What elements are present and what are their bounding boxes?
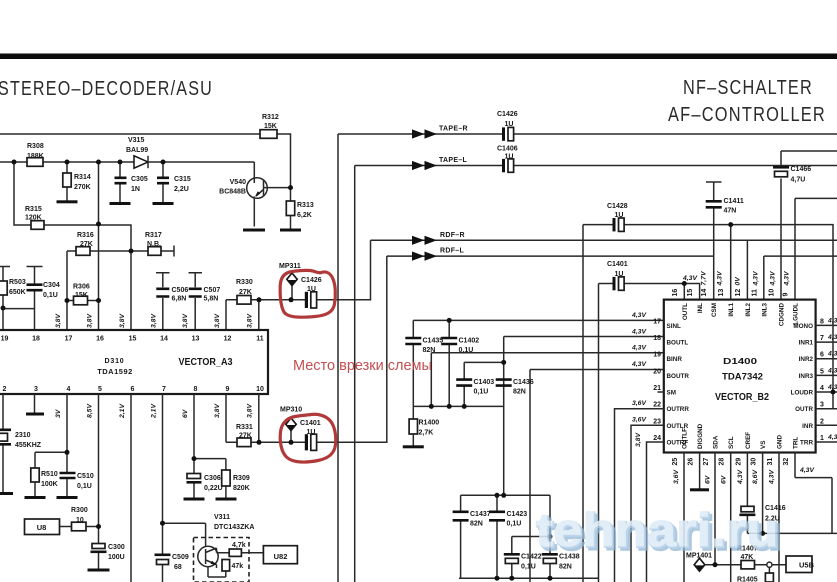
- svg-text:R312: R312: [262, 114, 279, 121]
- svg-text:3,8V: 3,8V: [86, 313, 93, 328]
- svg-text:19: 19: [653, 352, 661, 359]
- svg-text:OUTRR: OUTRR: [667, 406, 690, 413]
- svg-text:V540: V540: [230, 179, 246, 186]
- svg-text:12: 12: [224, 336, 232, 343]
- svg-text:3: 3: [34, 386, 38, 393]
- svg-text:1U: 1U: [307, 429, 316, 436]
- svg-text:120K: 120K: [25, 214, 42, 221]
- svg-text:INL3: INL3: [761, 303, 768, 317]
- svg-text:R330: R330: [236, 279, 253, 286]
- svg-text:2,1V: 2,1V: [119, 403, 126, 419]
- svg-text:9: 9: [783, 293, 790, 297]
- svg-text:18: 18: [32, 336, 40, 343]
- svg-text:R308: R308: [27, 143, 44, 150]
- svg-text:3,8V: 3,8V: [214, 313, 221, 328]
- svg-text:1N: 1N: [131, 186, 140, 193]
- svg-text:14: 14: [160, 336, 168, 343]
- svg-text:SM: SM: [667, 390, 676, 397]
- svg-text:16: 16: [96, 336, 104, 343]
- svg-text:455KHZ: 455KHZ: [15, 442, 42, 449]
- svg-text:C1466: C1466: [791, 166, 812, 173]
- svg-text:SDA: SDA: [713, 435, 720, 449]
- svg-text:15K: 15K: [264, 123, 277, 130]
- svg-text:2: 2: [3, 386, 7, 393]
- svg-text:C1401: C1401: [607, 261, 628, 268]
- svg-text:TDA7342: TDA7342: [722, 372, 763, 382]
- svg-text:4,3V: 4,3V: [784, 270, 791, 286]
- svg-text:26: 26: [688, 458, 695, 466]
- svg-text:28: 28: [719, 458, 726, 466]
- svg-text:C509: C509: [172, 554, 189, 561]
- svg-text:4,3V: 4,3V: [717, 270, 724, 286]
- svg-text:270K: 270K: [74, 184, 91, 191]
- svg-text:D310: D310: [105, 358, 125, 365]
- svg-text:3,6V: 3,6V: [673, 469, 680, 484]
- svg-text:17: 17: [653, 318, 661, 325]
- svg-text:3,8V: 3,8V: [635, 432, 642, 447]
- svg-text:R314: R314: [74, 174, 91, 181]
- svg-text:INR: INR: [802, 423, 813, 430]
- svg-text:27K: 27K: [239, 433, 252, 440]
- svg-text:4,3V: 4,3V: [631, 361, 647, 368]
- svg-text:16: 16: [672, 289, 679, 297]
- svg-text:32: 32: [783, 458, 790, 466]
- svg-text:4,3V: 4,3V: [737, 469, 744, 485]
- svg-text:4,3V: 4,3V: [827, 317, 837, 324]
- svg-text:R510: R510: [41, 471, 58, 478]
- svg-text:C1411: C1411: [724, 198, 744, 205]
- svg-text:0,1U: 0,1U: [43, 292, 58, 299]
- svg-text:R309: R309: [233, 475, 250, 482]
- svg-text:7,7V: 7,7V: [701, 270, 708, 285]
- svg-text:8,5V: 8,5V: [86, 403, 93, 418]
- svg-text:4,3V: 4,3V: [631, 345, 647, 352]
- svg-text:C506: C506: [172, 287, 189, 294]
- svg-text:3,8V: 3,8V: [246, 313, 253, 328]
- svg-text:TDA1592: TDA1592: [97, 367, 133, 376]
- svg-text:0,1U: 0,1U: [474, 389, 489, 396]
- svg-text:R1405: R1405: [737, 577, 758, 582]
- svg-text:82N: 82N: [559, 564, 572, 571]
- svg-text:AF–CONTROLLER: AF–CONTROLLER: [668, 104, 826, 126]
- svg-text:4,7U: 4,7U: [791, 177, 806, 184]
- svg-text:11: 11: [751, 289, 758, 297]
- svg-text:27K: 27K: [80, 241, 93, 248]
- svg-text:3: 3: [820, 402, 824, 409]
- svg-text:31: 31: [767, 458, 774, 466]
- svg-text:1U: 1U: [615, 271, 624, 278]
- svg-text:C507: C507: [204, 287, 221, 294]
- svg-text:R300: R300: [71, 507, 88, 514]
- svg-text:R316: R316: [77, 232, 94, 239]
- svg-text:14: 14: [701, 289, 708, 297]
- svg-text:3,8V: 3,8V: [182, 313, 189, 328]
- svg-text:19: 19: [1, 336, 9, 343]
- svg-text:BC848B: BC848B: [219, 189, 246, 196]
- svg-text:0,1U: 0,1U: [521, 564, 536, 571]
- svg-text:TAPE–L: TAPE–L: [439, 157, 468, 164]
- svg-text:25: 25: [672, 458, 679, 466]
- svg-text:C1426: C1426: [497, 111, 518, 118]
- svg-text:4,3V: 4,3V: [631, 329, 647, 336]
- svg-text:C1428: C1428: [607, 203, 628, 210]
- svg-text:8: 8: [820, 318, 824, 325]
- svg-text:2,7K: 2,7K: [419, 430, 434, 437]
- svg-text:TRL: TRL: [793, 437, 800, 449]
- svg-text:BOUTR: BOUTR: [667, 373, 690, 380]
- svg-text:OUTL: OUTL: [682, 303, 689, 320]
- svg-text:C510: C510: [77, 473, 94, 480]
- svg-text:C1436: C1436: [513, 379, 534, 386]
- svg-text:3,8V: 3,8V: [55, 313, 62, 328]
- svg-text:13: 13: [192, 336, 200, 343]
- svg-text:0,22U: 0,22U: [204, 485, 223, 492]
- svg-text:N.B.: N.B.: [147, 241, 161, 248]
- svg-text:4,3V: 4,3V: [769, 469, 776, 485]
- svg-text:27K: 27K: [239, 289, 252, 296]
- svg-text:82N: 82N: [470, 521, 483, 528]
- svg-text:C304: C304: [43, 282, 60, 289]
- svg-text:15K: 15K: [75, 292, 88, 299]
- svg-text:INL2: INL2: [745, 303, 752, 317]
- svg-text:0,1U: 0,1U: [507, 521, 522, 528]
- svg-text:RDF–L: RDF–L: [440, 248, 464, 255]
- svg-text:VECTOR_A3: VECTOR_A3: [179, 357, 233, 368]
- svg-text:21: 21: [653, 385, 661, 392]
- svg-text:3,8V: 3,8V: [150, 313, 157, 328]
- svg-text:15: 15: [687, 289, 694, 297]
- svg-text:R315: R315: [25, 206, 42, 213]
- svg-text:1U: 1U: [307, 286, 316, 293]
- svg-text:4,3V: 4,3V: [799, 467, 815, 474]
- svg-text:C1435: C1435: [423, 338, 444, 345]
- svg-text:17: 17: [65, 336, 73, 343]
- svg-text:6: 6: [820, 352, 824, 359]
- svg-text:INR1: INR1: [799, 340, 814, 347]
- svg-text:188K: 188K: [27, 153, 44, 160]
- svg-text:1: 1: [820, 435, 824, 442]
- svg-text:10: 10: [256, 386, 264, 393]
- svg-text:C1437: C1437: [470, 511, 491, 518]
- svg-text:1U: 1U: [505, 121, 514, 128]
- svg-text:MP310: MP310: [280, 407, 302, 414]
- svg-text:SINL: SINL: [667, 323, 681, 330]
- svg-text:R317: R317: [145, 232, 162, 239]
- svg-text:BOUTL: BOUTL: [667, 340, 689, 347]
- svg-text:29: 29: [735, 458, 742, 466]
- svg-text:CSM: CSM: [711, 303, 718, 317]
- svg-text:U5B: U5B: [799, 561, 815, 570]
- svg-text:SCL: SCL: [728, 436, 735, 449]
- svg-text:6,2K: 6,2K: [297, 212, 312, 219]
- svg-text:27: 27: [703, 458, 710, 466]
- svg-text:47N: 47N: [724, 208, 737, 215]
- svg-text:RDF–R: RDF–R: [440, 232, 465, 239]
- svg-text:U82: U82: [274, 552, 288, 561]
- svg-text:1U: 1U: [505, 153, 514, 160]
- svg-text:4,3V: 4,3V: [827, 351, 837, 358]
- svg-text:TAPE–R: TAPE–R: [439, 126, 468, 133]
- svg-text:15: 15: [129, 336, 137, 343]
- svg-text:20: 20: [653, 368, 661, 375]
- svg-text:C305: C305: [131, 176, 148, 183]
- svg-text:3,8V: 3,8V: [246, 403, 253, 418]
- svg-text:22: 22: [653, 402, 661, 409]
- svg-text:LOUDR: LOUDR: [791, 390, 814, 397]
- svg-text:3V: 3V: [55, 408, 62, 418]
- svg-text:BAL99: BAL99: [126, 147, 148, 154]
- svg-text:U8: U8: [37, 523, 47, 532]
- svg-text:30: 30: [751, 458, 758, 466]
- svg-text:TRR: TRR: [800, 440, 813, 447]
- svg-text:13: 13: [718, 289, 725, 297]
- svg-text:6V: 6V: [721, 474, 728, 484]
- svg-text:INR2: INR2: [799, 356, 814, 363]
- svg-text:4,3V: 4,3V: [682, 275, 698, 282]
- svg-text:6V: 6V: [182, 408, 189, 418]
- svg-text:C315: C315: [174, 176, 191, 183]
- svg-text:R331: R331: [236, 424, 253, 431]
- svg-text:tehnari.ru: tehnari.ru: [536, 503, 779, 556]
- svg-text:4: 4: [67, 386, 71, 393]
- svg-text:4,3V: 4,3V: [753, 270, 760, 286]
- svg-text:3,8V: 3,8V: [119, 313, 126, 328]
- svg-text:18: 18: [653, 335, 661, 342]
- svg-text:4: 4: [820, 385, 824, 392]
- svg-text:VS: VS: [760, 441, 767, 449]
- svg-text:OUTRF: OUTRF: [667, 440, 689, 447]
- svg-text:C300: C300: [108, 544, 125, 551]
- svg-text:9: 9: [226, 386, 230, 393]
- svg-text:STEREO–DECODER/ASU: STEREO–DECODER/ASU: [0, 78, 213, 100]
- svg-text:5: 5: [820, 368, 824, 375]
- svg-text:BINR: BINR: [667, 356, 683, 363]
- svg-text:5: 5: [98, 386, 102, 393]
- svg-text:24: 24: [653, 435, 661, 442]
- svg-text:OUTR: OUTR: [795, 406, 813, 413]
- svg-text:68: 68: [174, 564, 182, 571]
- svg-text:82N: 82N: [423, 347, 436, 354]
- svg-text:0V: 0V: [735, 276, 742, 286]
- svg-text:2,2U: 2,2U: [174, 186, 189, 193]
- svg-text:INL: INL: [697, 303, 704, 313]
- svg-text:V315: V315: [128, 137, 144, 144]
- svg-text:R503: R503: [9, 279, 26, 286]
- svg-text:C1406: C1406: [497, 146, 518, 153]
- svg-text:C1423: C1423: [507, 511, 528, 518]
- svg-text:4,3V: 4,3V: [827, 334, 837, 341]
- svg-text:CREF: CREF: [745, 432, 752, 449]
- svg-text:MP311: MP311: [279, 263, 301, 270]
- svg-text:C1401: C1401: [300, 420, 321, 427]
- svg-text:OUTLR: OUTLR: [667, 423, 689, 430]
- svg-text:VECTOR_B2: VECTOR_B2: [715, 392, 769, 403]
- svg-text:CDGND: CDGND: [779, 303, 786, 327]
- svg-text:R313: R313: [297, 202, 314, 209]
- svg-text:10: 10: [769, 289, 776, 297]
- svg-text:MONO: MONO: [793, 323, 813, 330]
- svg-text:R306: R306: [73, 284, 90, 291]
- svg-text:4,3V: 4,3V: [770, 270, 777, 286]
- svg-text:INL1: INL1: [728, 303, 735, 317]
- svg-text:INR3: INR3: [799, 373, 814, 380]
- svg-text:10: 10: [76, 517, 84, 524]
- svg-text:6: 6: [131, 386, 135, 393]
- svg-text:2: 2: [820, 418, 824, 425]
- svg-text:7: 7: [820, 335, 824, 342]
- svg-text:4,3V: 4,3V: [827, 434, 837, 441]
- svg-text:7: 7: [162, 386, 166, 393]
- svg-text:C1403: C1403: [474, 379, 495, 386]
- svg-text:2,1V: 2,1V: [150, 403, 157, 419]
- svg-text:11: 11: [256, 336, 264, 343]
- svg-text:DIGGND: DIGGND: [697, 423, 704, 449]
- svg-text:100U: 100U: [108, 554, 125, 561]
- svg-text:R1400: R1400: [419, 420, 440, 427]
- svg-text:6V: 6V: [705, 474, 712, 484]
- svg-text:NF–SCHALTER: NF–SCHALTER: [683, 77, 813, 99]
- svg-text:23: 23: [653, 418, 661, 425]
- svg-text:6,8N: 6,8N: [172, 296, 187, 303]
- svg-text:3,6V: 3,6V: [632, 400, 647, 407]
- svg-text:C306: C306: [204, 475, 221, 482]
- svg-text:4,3V: 4,3V: [631, 312, 647, 319]
- svg-text:C1426: C1426: [301, 277, 322, 284]
- svg-text:V311: V311: [214, 514, 230, 521]
- svg-text:GND: GND: [777, 435, 784, 449]
- svg-text:0,1U: 0,1U: [459, 347, 474, 354]
- svg-text:8: 8: [194, 386, 198, 393]
- svg-text:0,1U: 0,1U: [77, 483, 92, 490]
- svg-text:82N: 82N: [513, 389, 526, 396]
- svg-text:4,3V: 4,3V: [827, 367, 837, 374]
- svg-text:8,6V: 8,6V: [752, 469, 759, 484]
- svg-text:820K: 820K: [233, 485, 250, 492]
- svg-text:LGUDL: LGUDL: [793, 303, 800, 325]
- svg-text:2310: 2310: [15, 432, 31, 439]
- svg-text:C1402: C1402: [459, 338, 480, 345]
- svg-text:12: 12: [735, 289, 742, 297]
- svg-text:47k: 47k: [232, 563, 244, 570]
- svg-text:3,6V: 3,6V: [632, 417, 647, 424]
- svg-text:5,8N: 5,8N: [204, 296, 219, 303]
- svg-text:Место врезки слемы: Место врезки слемы: [293, 358, 432, 374]
- svg-text:4,7k: 4,7k: [232, 542, 246, 549]
- svg-text:650K: 650K: [9, 289, 26, 296]
- svg-text:3,8V: 3,8V: [214, 403, 221, 418]
- svg-text:1U: 1U: [615, 212, 624, 219]
- svg-text:DTC143ZKA: DTC143ZKA: [214, 524, 254, 531]
- svg-text:100K: 100K: [41, 481, 58, 488]
- svg-text:D1400: D1400: [723, 356, 757, 366]
